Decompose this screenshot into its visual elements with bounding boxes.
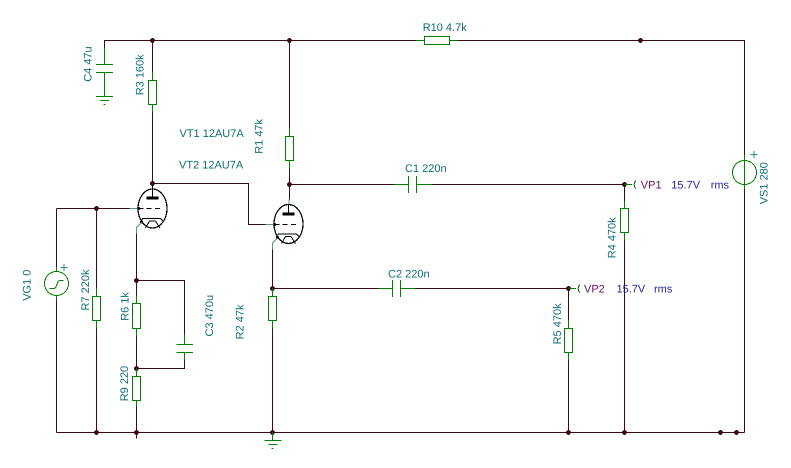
junction rail aux2 — [734, 430, 739, 435]
resistor R9 — [133, 369, 141, 407]
resistor R3 — [149, 73, 157, 113]
resistor R6 — [133, 296, 141, 337]
triode VT1 — [130, 185, 168, 234]
resistor R7 — [93, 289, 101, 329]
junction rail ground — [270, 430, 275, 435]
capacitor C1 — [394, 176, 432, 193]
svg-text:C3 470u: C3 470u — [204, 295, 216, 337]
wire C3 branch top — [137, 281, 185, 335]
wire cathode row to C2 — [273, 288, 379, 290]
svg-text:VS1 280: VS1 280 — [759, 162, 771, 204]
junction VP1 — [622, 182, 627, 187]
wire bottom rail — [57, 432, 745, 434]
junction rail R9 — [134, 430, 139, 435]
wire R1 top lead — [289, 41, 291, 129]
voltage pin VP2 — [569, 285, 580, 293]
svg-text:R7 220k: R7 220k — [80, 269, 92, 310]
svg-text:R2 47k: R2 47k — [234, 304, 246, 339]
wire VT2 anode row to C1 — [290, 184, 395, 186]
svg-text:C4 47u: C4 47u — [83, 46, 95, 81]
svg-text:rms: rms — [654, 283, 673, 295]
voltage pin VP1 — [625, 181, 636, 189]
wire R3 top lead — [152, 41, 154, 73]
wire R5 lower lead — [568, 361, 570, 433]
junction R1 top — [287, 38, 292, 43]
svg-text:VP2: VP2 — [584, 283, 605, 295]
wire VT1 anode to VT2 grid — [153, 184, 266, 225]
svg-text:R1 47k: R1 47k — [253, 118, 265, 153]
svg-text:R4 470k: R4 470k — [607, 217, 619, 258]
ground under C4 — [96, 97, 113, 105]
wire C1 to VP1 — [432, 184, 625, 186]
svg-text:VG1 0: VG1 0 — [22, 270, 34, 301]
junction VT2 anode — [287, 182, 292, 187]
svg-text:C2 220n: C2 220n — [388, 268, 430, 280]
junction VT2 cathode — [270, 286, 275, 291]
junction rail R5 — [566, 430, 571, 435]
resistor R5 — [565, 321, 573, 361]
wire VT2 cathode column — [272, 250, 274, 289]
junction top rail right — [638, 38, 643, 43]
wire stub below rail at R9 — [136, 433, 138, 439]
svg-text:R6 1k: R6 1k — [119, 292, 131, 321]
junction rail aux1 — [718, 430, 723, 435]
svg-text:VT1 12AU7A: VT1 12AU7A — [180, 128, 245, 140]
resistor R10 — [416, 37, 458, 45]
wire R1 bottom to VT2 anode — [289, 169, 291, 185]
junction rail R7 — [94, 430, 99, 435]
svg-text:R5 470k: R5 470k — [552, 303, 564, 344]
svg-text:15.7V: 15.7V — [671, 179, 700, 191]
wire R7 column lower — [96, 329, 98, 433]
svg-text:R9 220: R9 220 — [119, 366, 131, 401]
wire R6 upper lead — [136, 281, 138, 296]
resistor R1 — [286, 129, 294, 169]
wire R7 column upper — [96, 209, 98, 289]
wire C2 to VP2 — [415, 288, 569, 290]
wire C3 branch bottom — [137, 361, 185, 369]
wire R6 lower to R9 junction — [136, 337, 138, 369]
wire top rail right segment — [458, 41, 745, 155]
wire right rail below VS1 — [744, 190, 746, 433]
wire R4 upper lead — [624, 185, 626, 202]
junction R7 top — [94, 206, 99, 211]
svg-text:rms: rms — [711, 179, 730, 191]
svg-text:R10 4.7k: R10 4.7k — [423, 22, 468, 34]
junction VT1 anode — [150, 181, 155, 186]
wire top rail left segment — [105, 41, 417, 49]
resistor R2 — [269, 289, 277, 329]
capacitor C4 — [96, 48, 113, 97]
source VS1 — [733, 151, 758, 190]
junction R9 top — [134, 366, 139, 371]
capacitor C2 — [379, 280, 416, 297]
svg-text:C1 220n: C1 220n — [405, 163, 447, 175]
source VG1 — [45, 264, 69, 301]
junction R6 top — [134, 278, 139, 283]
svg-text:VT2 12AU7A: VT2 12AU7A — [179, 159, 244, 171]
capacitor C3 — [177, 335, 194, 361]
svg-text:15.7V: 15.7V — [617, 283, 646, 295]
junction R3 top — [150, 38, 155, 43]
junction VP2 — [566, 286, 571, 291]
triode VT2 — [266, 185, 304, 250]
resistor R4 — [621, 201, 629, 241]
wire R5 upper lead — [568, 289, 570, 321]
junction rail R4 — [622, 430, 627, 435]
wire R3 bottom to VT1 anode — [152, 113, 154, 184]
wire VT1 grid row — [57, 208, 130, 210]
wire VG1 bottom to rail — [56, 301, 58, 433]
wire left rail VG1 column — [56, 209, 58, 267]
wire R2 lower lead — [272, 329, 274, 433]
wire R9 bottom lead — [136, 407, 138, 433]
svg-text:R3 160k: R3 160k — [135, 54, 147, 95]
svg-text:VP1: VP1 — [641, 179, 662, 191]
wire R4 lower lead — [624, 241, 626, 433]
wire VT1 cathode column — [136, 234, 138, 281]
ground under R2 — [265, 433, 282, 449]
